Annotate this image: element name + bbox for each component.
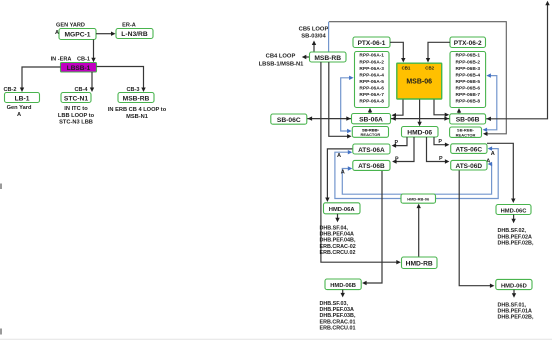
svg-text:DHB.SF.04,: DHB.SF.04, bbox=[320, 225, 349, 231]
wire SB-06C to SB-06A (bidirectional) bbox=[307, 118, 352, 120]
box RPP-06A list bbox=[355, 52, 390, 108]
wire frame loop (top + right) ending into SB-RBB-B reactor bbox=[329, 22, 506, 134]
svg-text:RPP-06A-7: RPP-06A-7 bbox=[359, 92, 384, 98]
svg-text:ERB.CRCU.01: ERB.CRCU.01 bbox=[320, 325, 356, 331]
box SB-RBB reactor A bbox=[352, 127, 388, 138]
box PTX-06-2 bbox=[450, 37, 486, 48]
wire MSB-RB down to HMD-RB bbox=[321, 62, 398, 262]
svg-text:IN -ERA: IN -ERA bbox=[51, 57, 72, 63]
wire MSB-06 to HMD-06 bbox=[419, 100, 421, 123]
svg-text:HMD-06A: HMD-06A bbox=[329, 207, 356, 213]
svg-text:P: P bbox=[439, 156, 443, 162]
wire HMD-06D down to list bbox=[513, 290, 515, 295]
wire MSB-06 to SB-06B bbox=[434, 100, 446, 115]
box LB-1 bbox=[5, 93, 40, 103]
wire HMD-06A down to list bbox=[337, 214, 339, 219]
box ATS-06C bbox=[451, 144, 487, 154]
svg-text:STC-N1: STC-N1 bbox=[64, 95, 88, 102]
svg-text:ATS-06B: ATS-06B bbox=[358, 163, 385, 170]
wire HMD-06B down to list bbox=[342, 290, 344, 294]
wire HMD-06 to ATS-06A with P bbox=[395, 137, 408, 146]
svg-text:CB5 LOOP: CB5 LOOP bbox=[299, 27, 329, 33]
svg-text:ERB.CRCU.02: ERB.CRCU.02 bbox=[320, 250, 356, 256]
svg-text:CB4 LOOP: CB4 LOOP bbox=[266, 54, 296, 60]
wire MGPC-1 down to LBSB-1 bbox=[93, 40, 95, 59]
wire HMD-06 to ATS-06B with P bbox=[395, 137, 414, 162]
svg-text:DHB.PEF.03B,: DHB.PEF.03B, bbox=[320, 313, 356, 319]
wire SB-06A up to RPP-06A bbox=[369, 111, 371, 113]
svg-text:SB-06B: SB-06B bbox=[456, 117, 480, 124]
wire ATS-06B down to HMD-06B bbox=[365, 170, 382, 283]
box L-N3/RB bbox=[116, 29, 153, 39]
svg-text:RPP-06B-3: RPP-06B-3 bbox=[456, 66, 481, 72]
wire SB-06B up to RPP-06B bbox=[458, 111, 460, 113]
svg-text:CB-1: CB-1 bbox=[77, 57, 90, 63]
svg-text:RPP-06A-8: RPP-06A-8 bbox=[359, 99, 384, 105]
box MSB-RB (right) bbox=[310, 52, 347, 62]
svg-text:DHB.PEF.02B,: DHB.PEF.02B, bbox=[498, 240, 534, 246]
svg-text:DHB.SF.03,: DHB.SF.03, bbox=[320, 301, 349, 307]
box MGPC-1 bbox=[59, 29, 96, 40]
wire ATS-06C to HMD-06C bbox=[487, 143, 513, 199]
svg-text:ERB.CRAC.01: ERB.CRAC.01 bbox=[320, 319, 356, 325]
box HMD-06B bbox=[325, 279, 361, 290]
svg-text:MGPC-1: MGPC-1 bbox=[64, 32, 90, 39]
svg-text:P: P bbox=[395, 156, 399, 162]
box HMD-06D bbox=[496, 279, 532, 289]
svg-text:SB-06A: SB-06A bbox=[359, 116, 383, 123]
wire HMD-06 to ATS-06D with P bbox=[427, 137, 447, 162]
box HMD-06 bbox=[402, 127, 439, 138]
box HMD-RB-06 bbox=[401, 194, 436, 203]
box RPP-06B list bbox=[450, 52, 486, 108]
svg-text:HMD-RB-06: HMD-RB-06 bbox=[407, 197, 430, 202]
svg-text:LB-1: LB-1 bbox=[15, 95, 30, 102]
svg-text:RPP-06A-4: RPP-06A-4 bbox=[359, 72, 384, 78]
svg-text:GEN YARD: GEN YARD bbox=[56, 23, 85, 29]
svg-text:ER-A: ER-A bbox=[122, 23, 136, 29]
box SB-06C bbox=[271, 114, 307, 124]
svg-text:LBSB-1/MSB-N1: LBSB-1/MSB-N1 bbox=[259, 62, 305, 68]
box SB-RBB reactor B bbox=[450, 127, 482, 137]
wire LBSB-1 to LB-1 bbox=[22, 67, 61, 88]
svg-text:RPP-06A-3: RPP-06A-3 bbox=[359, 66, 384, 72]
svg-text:STC-N3 LBB: STC-N3 LBB bbox=[59, 120, 93, 126]
wire MGPC-1 to L-N3/RB bbox=[96, 33, 112, 35]
svg-text:A: A bbox=[341, 170, 345, 176]
svg-text:REACTOR: REACTOR bbox=[456, 132, 476, 137]
svg-text:ATS-06D: ATS-06D bbox=[455, 163, 482, 170]
svg-text:RPP-06A-6: RPP-06A-6 bbox=[359, 85, 384, 91]
wire ATS-06D to HMD-06D bbox=[459, 170, 491, 286]
svg-text:HMD-06B: HMD-06B bbox=[330, 283, 356, 289]
box STC-N1 bbox=[61, 93, 91, 103]
svg-text:DHB.PEF.04B,: DHB.PEF.04B, bbox=[320, 238, 356, 244]
svg-text:DHB.SF.01,: DHB.SF.01, bbox=[498, 302, 527, 308]
box SB-06B bbox=[450, 114, 486, 124]
box HMD-RB bbox=[402, 257, 438, 269]
box HMD-06A bbox=[324, 203, 361, 214]
svg-text:LBB LOOP to: LBB LOOP to bbox=[58, 113, 95, 119]
wire PTX-06-2 to CB2 bbox=[428, 42, 450, 59]
svg-text:HMD-06C: HMD-06C bbox=[501, 208, 528, 214]
wire blue bus ATS-06A to ATS-06C with A labels bbox=[335, 149, 498, 199]
svg-text:CB2: CB2 bbox=[425, 66, 434, 71]
svg-text:A: A bbox=[337, 153, 341, 159]
svg-text:IN ERB CB 4 LOOP to: IN ERB CB 4 LOOP to bbox=[108, 107, 167, 113]
svg-text:ATS-06C: ATS-06C bbox=[455, 146, 482, 153]
svg-text:RPP-06B-1: RPP-06B-1 bbox=[456, 53, 481, 59]
bottom hairline bbox=[0, 338, 552, 340]
svg-text:RPP-06A-1: RPP-06A-1 bbox=[359, 53, 384, 59]
svg-text:RPP-06A-2: RPP-06A-2 bbox=[359, 59, 384, 65]
box ATS-06A bbox=[353, 144, 390, 154]
wire SB-06B right loop up arrow bbox=[486, 4, 548, 119]
svg-text:RPP-06B-2: RPP-06B-2 bbox=[456, 59, 481, 65]
box MSB-06 (orange) bbox=[397, 63, 442, 99]
svg-text:RPP-06B-8: RPP-06B-8 bbox=[456, 99, 481, 105]
svg-text:PTX-06-1: PTX-06-1 bbox=[358, 40, 386, 47]
svg-text:DHB.PEF.04A: DHB.PEF.04A bbox=[320, 231, 355, 237]
wire PTX-06-1 to CB1 bbox=[390, 42, 403, 59]
svg-text:RPP-06B-7: RPP-06B-7 bbox=[456, 92, 481, 98]
svg-text:RPP-06A-5: RPP-06A-5 bbox=[359, 79, 384, 85]
svg-text:MSB-06: MSB-06 bbox=[406, 78, 432, 85]
svg-text:A: A bbox=[17, 112, 21, 118]
wire SB-06A to SB-06B (bidirectional) bbox=[391, 118, 450, 120]
wire blue into RPP-06B (from SB-RBB-B) bbox=[484, 76, 497, 130]
wire ATS-06A to HMD-06A bbox=[327, 149, 352, 198]
wire blue drop frame corner to MSB-RB top bbox=[328, 22, 330, 52]
svg-text:HMD-06D: HMD-06D bbox=[501, 283, 527, 289]
svg-text:LBSB-1: LBSB-1 bbox=[67, 65, 91, 72]
svg-text:L-N3/RB: L-N3/RB bbox=[121, 31, 148, 38]
svg-text:HMD-06: HMD-06 bbox=[407, 130, 432, 137]
svg-text:DHB.PEF.02A: DHB.PEF.02A bbox=[498, 234, 533, 240]
svg-text:CB1: CB1 bbox=[402, 66, 411, 71]
svg-text:DHB.PEF.03A: DHB.PEF.03A bbox=[320, 307, 355, 313]
wire HMD-06 to ATS-06C with P bbox=[434, 137, 446, 145]
box PTX-06-1 bbox=[353, 37, 390, 48]
box LBSB-1 (magenta) bbox=[61, 63, 97, 73]
svg-text:RPP-06B-4: RPP-06B-4 bbox=[456, 72, 481, 78]
wire MSB-RB left arrow to CB4 LOOP label bbox=[305, 56, 310, 58]
svg-text:DHB.PEF.02B,: DHB.PEF.02B, bbox=[498, 315, 534, 321]
svg-text:SB-06C: SB-06C bbox=[277, 117, 301, 124]
wire blue into RPP-06A (from SB-RBB-A) bbox=[341, 78, 351, 131]
left edge artifact marks bbox=[0, 184, 2, 190]
wire blue bus ATS-06B to ATS-06D with A labels bbox=[342, 164, 491, 194]
svg-text:RPP-06B-5: RPP-06B-5 bbox=[456, 79, 481, 85]
svg-text:ERB.CRAC-02: ERB.CRAC-02 bbox=[320, 244, 356, 250]
svg-text:MSB-RB: MSB-RB bbox=[123, 95, 150, 102]
svg-text:RPP-06B-6: RPP-06B-6 bbox=[456, 85, 481, 91]
svg-text:MSB-RB: MSB-RB bbox=[314, 55, 341, 62]
box HMD-06C bbox=[496, 205, 531, 215]
wire MSB-06 to SB-06A bbox=[395, 100, 404, 116]
svg-text:DHB.SF.02,: DHB.SF.02, bbox=[498, 228, 527, 234]
svg-text:ATS-06A: ATS-06A bbox=[358, 147, 385, 154]
box ATS-06B bbox=[353, 160, 390, 170]
svg-text:IN ITC to: IN ITC to bbox=[64, 106, 88, 112]
svg-text:A: A bbox=[55, 30, 59, 36]
wire LBSB-1 to STC-N1 bbox=[91, 72, 93, 88]
box MSB-RB (left) bbox=[118, 93, 154, 103]
wire HMD-06C down to list bbox=[513, 215, 515, 220]
svg-text:A: A bbox=[491, 151, 495, 157]
svg-text:P: P bbox=[438, 139, 442, 145]
wire HMD-RB up to HMD-RB-06 bbox=[418, 207, 420, 257]
box ATS-06D bbox=[451, 160, 487, 170]
svg-text:DHB.PEF.01A: DHB.PEF.01A bbox=[498, 308, 533, 314]
svg-text:Gen Yard: Gen Yard bbox=[7, 105, 32, 111]
box SB-06A bbox=[352, 114, 391, 124]
svg-text:MSB-N1: MSB-N1 bbox=[126, 114, 148, 120]
wire MSB-RB up arrow to CB5 LOOP label bbox=[313, 44, 315, 52]
svg-text:P: P bbox=[394, 140, 398, 146]
svg-text:PTX-06-2: PTX-06-2 bbox=[454, 40, 482, 47]
svg-text:HMD-RB: HMD-RB bbox=[406, 261, 433, 268]
svg-text:SB-03/04: SB-03/04 bbox=[301, 34, 326, 40]
svg-text:REACTOR: REACTOR bbox=[361, 132, 381, 137]
wire LBSB-1 to MSB-RB(left) bbox=[97, 67, 144, 89]
wire MSB-RB down to SB-RBB-A reactor bbox=[329, 62, 349, 136]
